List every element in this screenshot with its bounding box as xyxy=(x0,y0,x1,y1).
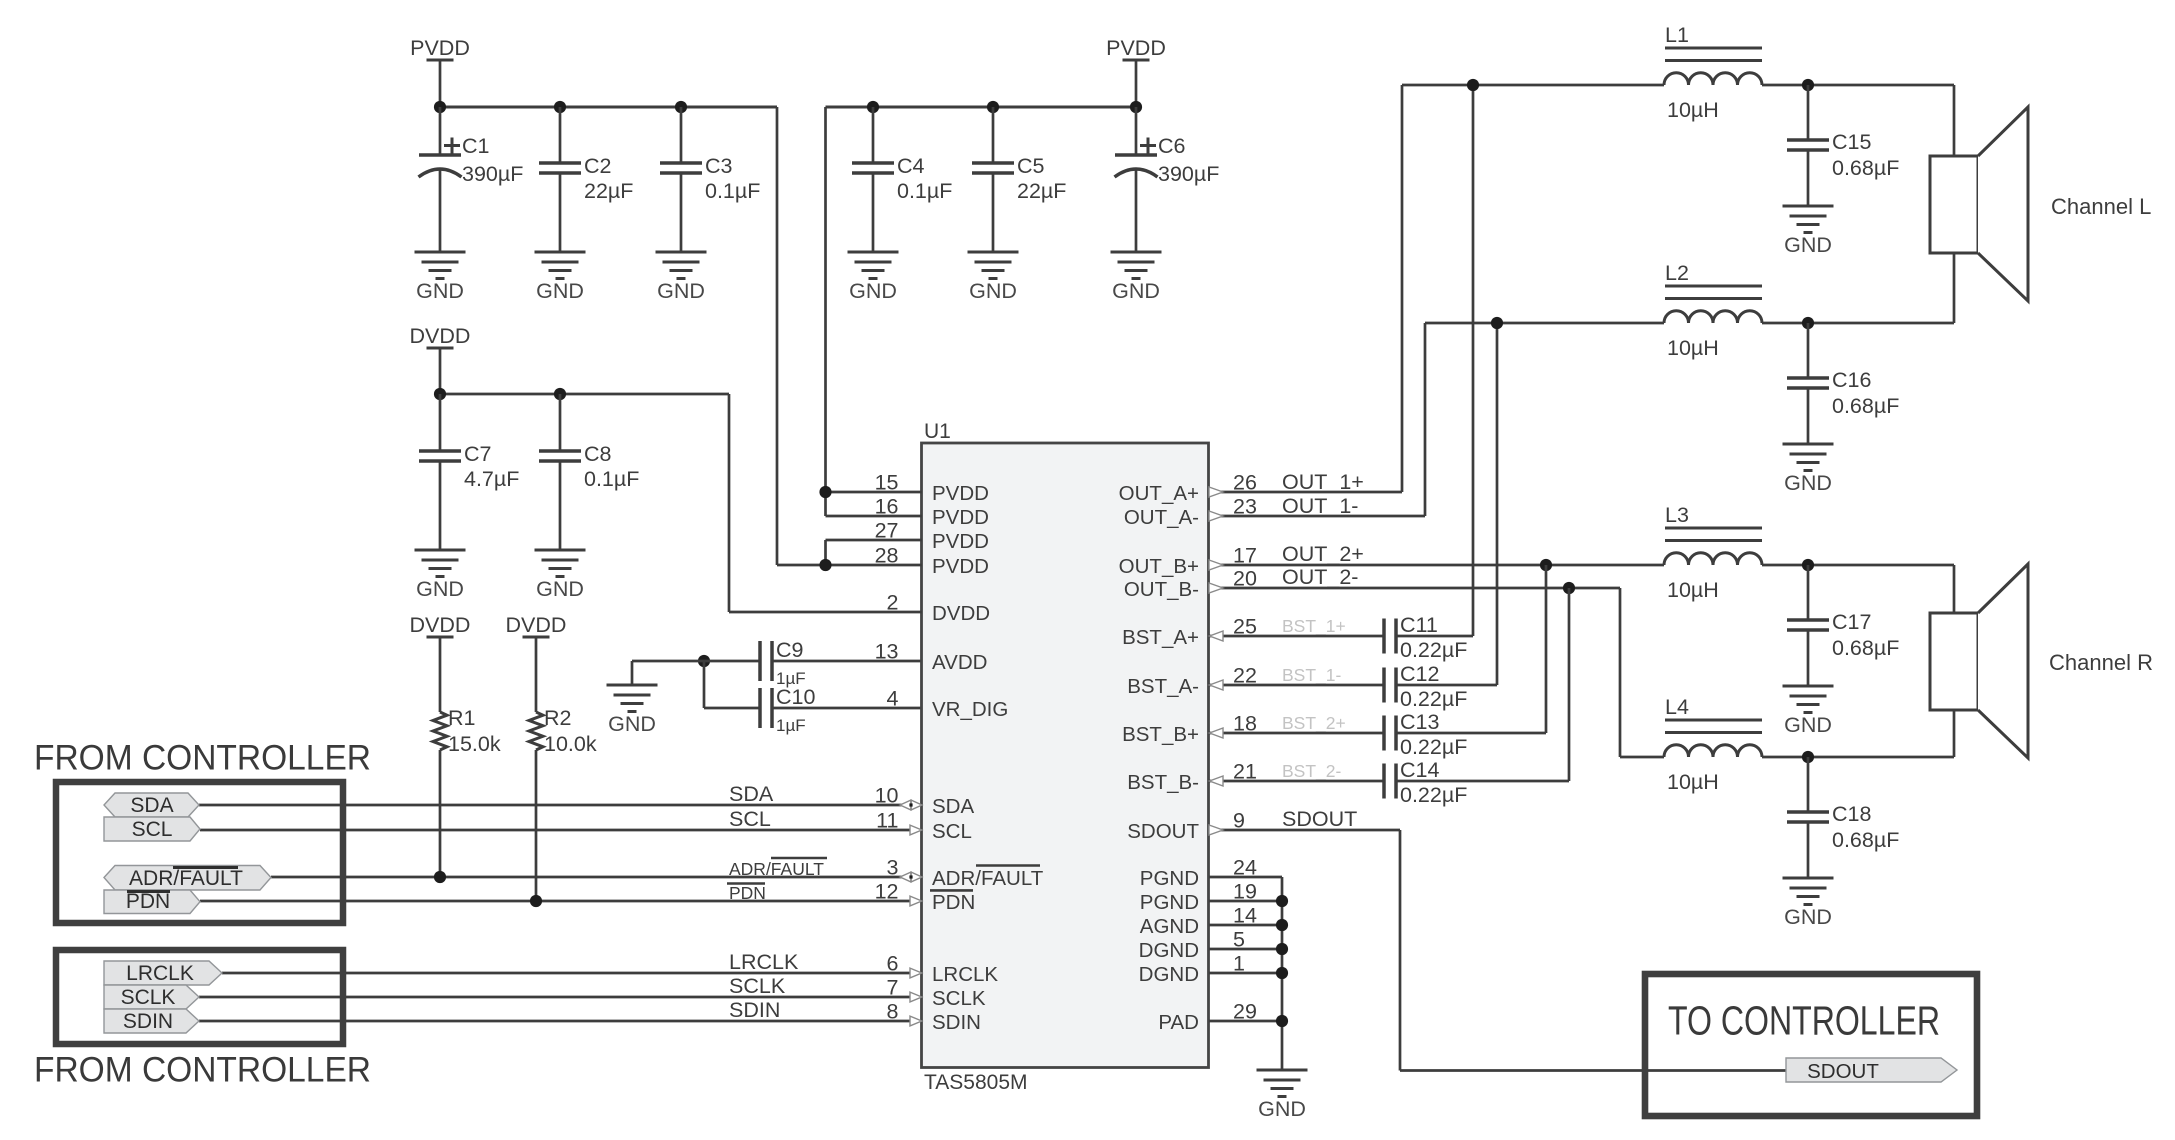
svg-text:16: 16 xyxy=(875,495,899,519)
svg-text:DGND: DGND xyxy=(1139,939,1199,962)
svg-text:390µF: 390µF xyxy=(1158,162,1219,186)
svg-text:GND: GND xyxy=(536,279,584,303)
svg-text:13: 13 xyxy=(875,640,899,664)
svg-text:TO CONTROLLER: TO CONTROLLER xyxy=(1668,998,1940,1044)
svg-text:C5: C5 xyxy=(1017,154,1045,178)
svg-text:LRCLK: LRCLK xyxy=(126,962,194,985)
svg-text:SDOUT: SDOUT xyxy=(1127,820,1199,843)
svg-text:8: 8 xyxy=(887,1000,899,1024)
svg-text:OUT_1+: OUT_1+ xyxy=(1282,470,1364,494)
svg-text:C16: C16 xyxy=(1832,368,1871,392)
svg-text:PDN: PDN xyxy=(729,883,766,903)
svg-text:0.68µF: 0.68µF xyxy=(1832,394,1899,418)
svg-text:SDA: SDA xyxy=(932,795,974,818)
svg-text:C17: C17 xyxy=(1832,610,1871,634)
svg-text:C9: C9 xyxy=(776,638,803,662)
svg-text:OUT_B+: OUT_B+ xyxy=(1119,555,1199,578)
svg-text:0.22µF: 0.22µF xyxy=(1400,687,1467,711)
svg-text:0.22µF: 0.22µF xyxy=(1400,735,1467,759)
svg-text:GND: GND xyxy=(1258,1097,1306,1121)
svg-text:OUT_2-: OUT_2- xyxy=(1282,565,1358,589)
svg-text:10: 10 xyxy=(875,784,899,808)
svg-text:SDOUT: SDOUT xyxy=(1807,1060,1879,1083)
svg-text:22µF: 22µF xyxy=(584,179,633,203)
svg-text:L2: L2 xyxy=(1665,261,1689,285)
svg-text:390µF: 390µF xyxy=(462,162,523,186)
svg-text:GND: GND xyxy=(416,279,464,303)
svg-text:BST_1+: BST_1+ xyxy=(1282,616,1346,637)
svg-text:LRCLK: LRCLK xyxy=(932,963,998,986)
svg-text:DVDD: DVDD xyxy=(410,613,471,637)
svg-text:OUT_B-: OUT_B- xyxy=(1124,578,1199,601)
svg-text:C11: C11 xyxy=(1400,613,1438,637)
svg-text:C7: C7 xyxy=(464,442,491,466)
svg-text:C15: C15 xyxy=(1832,130,1871,154)
svg-text:SDIN: SDIN xyxy=(123,1010,173,1033)
svg-text:PVDD: PVDD xyxy=(932,506,989,529)
svg-text:ADR/FAULT: ADR/FAULT xyxy=(129,867,243,890)
svg-text:GND: GND xyxy=(969,279,1017,303)
svg-text:C12: C12 xyxy=(1400,662,1439,686)
svg-text:GND: GND xyxy=(416,577,464,601)
svg-text:15: 15 xyxy=(875,471,899,495)
svg-text:0.68µF: 0.68µF xyxy=(1832,156,1899,180)
svg-text:C2: C2 xyxy=(584,154,611,178)
svg-text:SCLK: SCLK xyxy=(932,987,986,1010)
svg-text:11: 11 xyxy=(876,809,898,833)
svg-text:0.68µF: 0.68µF xyxy=(1832,828,1899,852)
svg-text:TAS5805M: TAS5805M xyxy=(924,1071,1028,1094)
svg-text:PVDD: PVDD xyxy=(1106,36,1166,60)
svg-text:7: 7 xyxy=(887,976,899,1000)
svg-text:BST_2-: BST_2- xyxy=(1282,761,1341,782)
svg-text:PGND: PGND xyxy=(1140,867,1199,890)
svg-text:FROM CONTROLLER: FROM CONTROLLER xyxy=(34,739,371,778)
svg-text:4: 4 xyxy=(887,687,899,711)
svg-text:SCLK: SCLK xyxy=(121,986,176,1009)
svg-text:PVDD: PVDD xyxy=(932,555,989,578)
svg-text:PDN: PDN xyxy=(932,891,975,914)
svg-text:PGND: PGND xyxy=(1140,891,1199,914)
svg-text:C3: C3 xyxy=(705,154,733,178)
svg-text:PDN: PDN xyxy=(126,890,170,913)
svg-text:C14: C14 xyxy=(1400,758,1439,782)
svg-text:C18: C18 xyxy=(1832,802,1871,826)
svg-text:BST_1-: BST_1- xyxy=(1282,665,1341,686)
svg-text:Channel R: Channel R xyxy=(2049,650,2153,675)
svg-text:SCL: SCL xyxy=(932,820,972,843)
svg-text:ADR/FAULT: ADR/FAULT xyxy=(729,859,824,879)
svg-text:C1: C1 xyxy=(462,134,489,158)
svg-text:R1: R1 xyxy=(448,706,475,730)
svg-text:0.1µF: 0.1µF xyxy=(705,179,760,203)
svg-text:0.68µF: 0.68µF xyxy=(1832,636,1899,660)
svg-text:AVDD: AVDD xyxy=(932,651,987,674)
svg-text:10µH: 10µH xyxy=(1667,336,1719,360)
svg-text:SCL: SCL xyxy=(132,818,173,841)
svg-text:SDOUT: SDOUT xyxy=(1282,807,1357,831)
svg-text:SDIN: SDIN xyxy=(729,998,780,1022)
svg-text:3: 3 xyxy=(887,856,899,880)
svg-text:SCL: SCL xyxy=(729,807,771,831)
svg-text:VR_DIG: VR_DIG xyxy=(932,698,1008,721)
svg-text:GND: GND xyxy=(1784,905,1832,929)
svg-text:BST_A-: BST_A- xyxy=(1127,675,1199,698)
svg-text:DVDD: DVDD xyxy=(410,324,471,348)
svg-text:GND: GND xyxy=(536,577,584,601)
svg-text:GND: GND xyxy=(1784,471,1832,495)
svg-text:OUT_A+: OUT_A+ xyxy=(1119,482,1199,505)
svg-text:GND: GND xyxy=(1112,279,1160,303)
svg-text:PAD: PAD xyxy=(1158,1011,1199,1034)
svg-text:BST_A+: BST_A+ xyxy=(1122,626,1199,649)
svg-text:SDA: SDA xyxy=(130,794,173,817)
svg-text:ADR/FAULT: ADR/FAULT xyxy=(932,867,1044,890)
svg-text:12: 12 xyxy=(875,880,899,904)
svg-text:L4: L4 xyxy=(1665,695,1689,719)
svg-text:PVDD: PVDD xyxy=(932,530,989,553)
svg-text:10µH: 10µH xyxy=(1667,770,1719,794)
svg-text:BST_2+: BST_2+ xyxy=(1282,713,1346,734)
svg-text:10.0k: 10.0k xyxy=(544,732,597,756)
svg-text:L1: L1 xyxy=(1665,23,1689,47)
svg-text:Channel L: Channel L xyxy=(2051,194,2151,219)
svg-text:OUT_2+: OUT_2+ xyxy=(1282,542,1364,566)
svg-text:AGND: AGND xyxy=(1140,915,1199,938)
svg-text:BST_B-: BST_B- xyxy=(1127,771,1199,794)
svg-text:C10: C10 xyxy=(776,685,815,709)
svg-text:C8: C8 xyxy=(584,442,612,466)
svg-text:10µH: 10µH xyxy=(1667,98,1719,122)
svg-text:27: 27 xyxy=(875,519,899,543)
svg-text:SCLK: SCLK xyxy=(729,974,786,998)
svg-text:6: 6 xyxy=(887,952,899,976)
svg-text:2: 2 xyxy=(887,591,899,615)
svg-text:0.22µF: 0.22µF xyxy=(1400,638,1467,662)
svg-text:C13: C13 xyxy=(1400,710,1439,734)
svg-text:DVDD: DVDD xyxy=(932,602,990,625)
svg-text:28: 28 xyxy=(875,544,899,568)
svg-text:PVDD: PVDD xyxy=(410,36,470,60)
svg-text:SDA: SDA xyxy=(729,782,774,806)
svg-text:C4: C4 xyxy=(897,154,925,178)
svg-text:SDIN: SDIN xyxy=(932,1011,981,1034)
svg-text:0.22µF: 0.22µF xyxy=(1400,783,1467,807)
svg-text:GND: GND xyxy=(1784,713,1832,737)
svg-text:BST_B+: BST_B+ xyxy=(1122,723,1199,746)
svg-text:DVDD: DVDD xyxy=(506,613,567,637)
svg-text:1µF: 1µF xyxy=(776,716,806,735)
svg-text:L3: L3 xyxy=(1665,503,1689,527)
svg-text:U1: U1 xyxy=(924,420,951,443)
svg-text:22µF: 22µF xyxy=(1017,179,1066,203)
svg-text:OUT_1-: OUT_1- xyxy=(1282,494,1358,518)
svg-text:PVDD: PVDD xyxy=(932,482,989,505)
svg-text:GND: GND xyxy=(1784,233,1832,257)
svg-text:C6: C6 xyxy=(1158,134,1186,158)
svg-text:LRCLK: LRCLK xyxy=(729,950,799,974)
svg-text:OUT_A-: OUT_A- xyxy=(1124,506,1199,529)
svg-text:GND: GND xyxy=(849,279,897,303)
svg-text:GND: GND xyxy=(608,712,656,736)
svg-text:GND: GND xyxy=(657,279,705,303)
svg-text:0.1µF: 0.1µF xyxy=(897,179,952,203)
svg-text:FROM CONTROLLER: FROM CONTROLLER xyxy=(34,1051,371,1090)
svg-text:15.0k: 15.0k xyxy=(448,732,501,756)
svg-text:0.1µF: 0.1µF xyxy=(584,467,639,491)
svg-text:R2: R2 xyxy=(544,706,571,730)
svg-text:10µH: 10µH xyxy=(1667,578,1719,602)
svg-text:DGND: DGND xyxy=(1139,963,1199,986)
svg-text:4.7µF: 4.7µF xyxy=(464,467,519,491)
